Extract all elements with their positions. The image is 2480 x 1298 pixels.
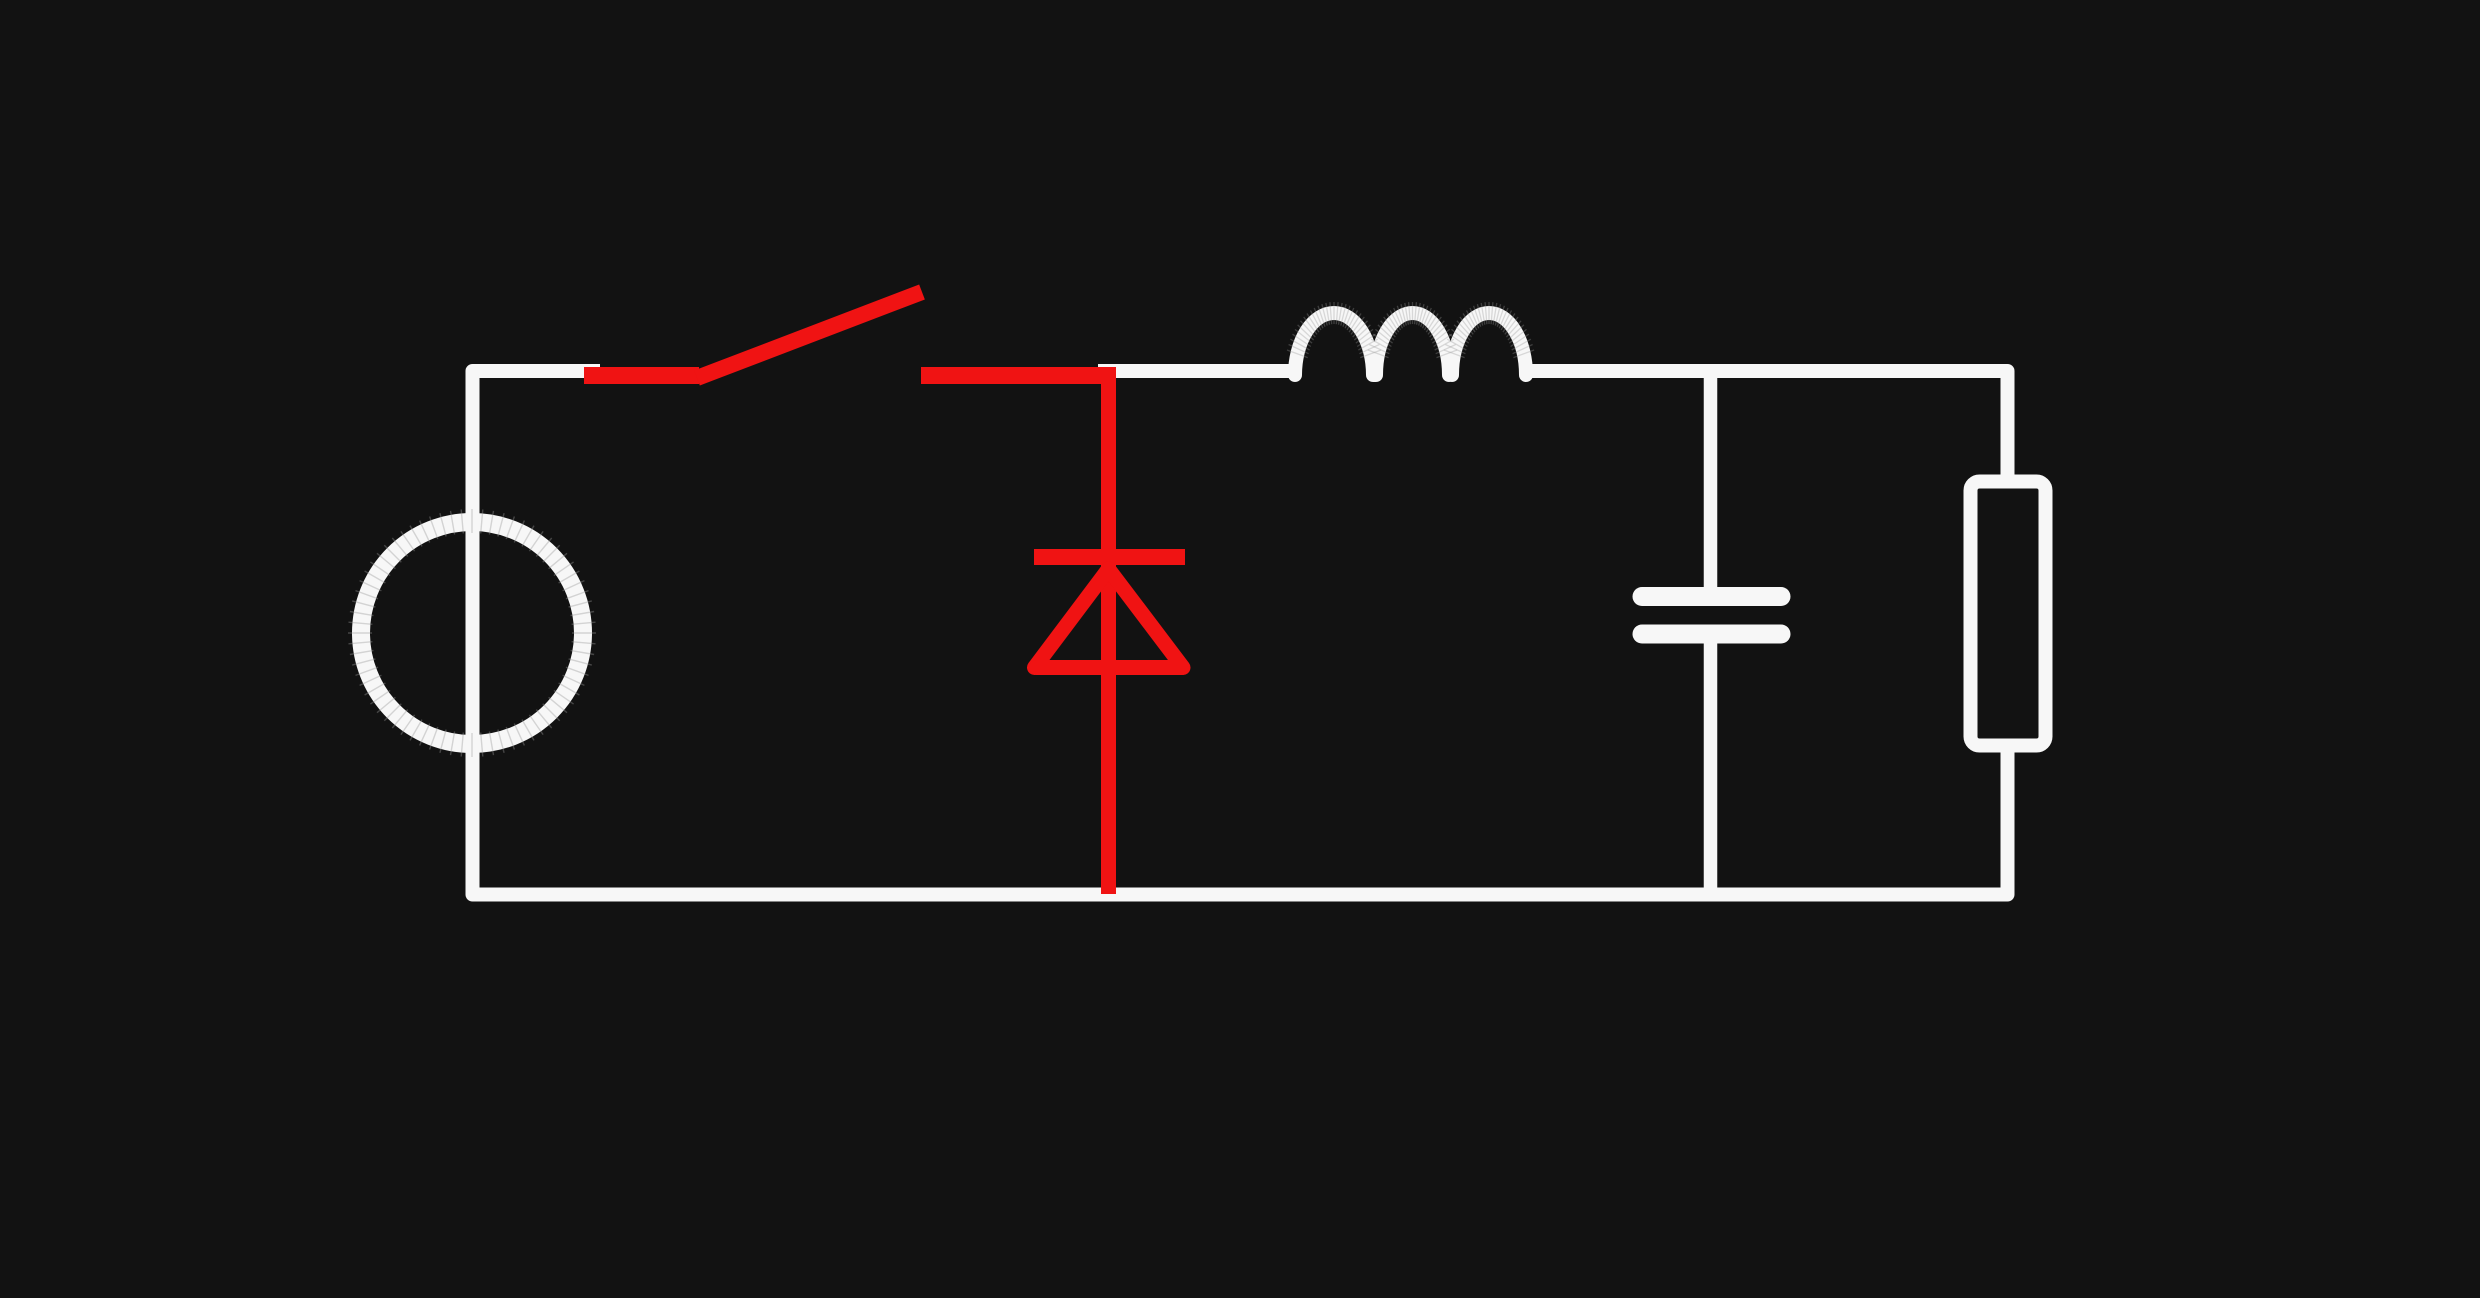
wire: top-left rail from source down the left side to bottom-left bbox=[473, 371, 1111, 895]
capacitor C1: top lead bbox=[1704, 366, 1718, 588]
switch S1: right red contact lead to diode node bbox=[921, 367, 1108, 384]
wire: top-right rail from inductor over corner down to load, and bottom side bbox=[1105, 371, 2008, 895]
switch S1: left red lead and open blade bbox=[584, 292, 922, 378]
diode D1: cathode bar bbox=[1034, 549, 1185, 565]
resistor R1 (load box) bbox=[1971, 482, 2046, 746]
inductor L1 (three lobes with sketch ticks) bbox=[1287, 302, 1534, 375]
voltage source VS (circle with sketch ticks) bbox=[348, 509, 596, 757]
capacitor C1: top plate bbox=[1642, 587, 1781, 606]
diode D1: triangle outline (pointing up) bbox=[1035, 569, 1184, 668]
capacitor C1: bottom lead bbox=[1704, 643, 1718, 894]
wire: top-middle rail from diode node to inductor bbox=[1098, 364, 1298, 378]
diode D1: vertical cathode/anode line bbox=[1101, 367, 1116, 894]
capacitor C1: bottom plate bbox=[1642, 625, 1781, 644]
